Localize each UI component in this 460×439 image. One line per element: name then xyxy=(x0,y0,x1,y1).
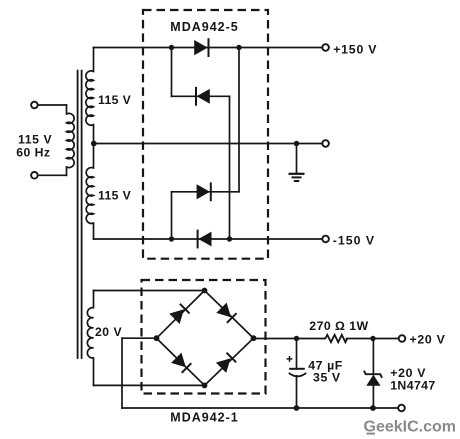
svg-text:115 V: 115 V xyxy=(98,93,132,107)
svg-text:1N4747: 1N4747 xyxy=(390,378,435,392)
svg-text:35 V: 35 V xyxy=(313,370,341,384)
svg-text:60 Hz: 60 Hz xyxy=(16,146,50,160)
svg-text:270 Ω 1W: 270 Ω 1W xyxy=(309,319,368,333)
svg-text:+150 V: +150 V xyxy=(333,43,377,57)
svg-text:+20 V: +20 V xyxy=(410,333,446,347)
svg-text:GeekIC.com: GeekIC.com xyxy=(364,419,456,436)
svg-text:20 V: 20 V xyxy=(95,325,122,339)
svg-text:-150 V: -150 V xyxy=(333,234,375,248)
svg-text:115 V: 115 V xyxy=(18,133,52,147)
svg-text:MDA942-1: MDA942-1 xyxy=(170,411,238,425)
svg-text:115 V: 115 V xyxy=(98,189,132,203)
svg-text:MDA942-5: MDA942-5 xyxy=(170,20,238,34)
